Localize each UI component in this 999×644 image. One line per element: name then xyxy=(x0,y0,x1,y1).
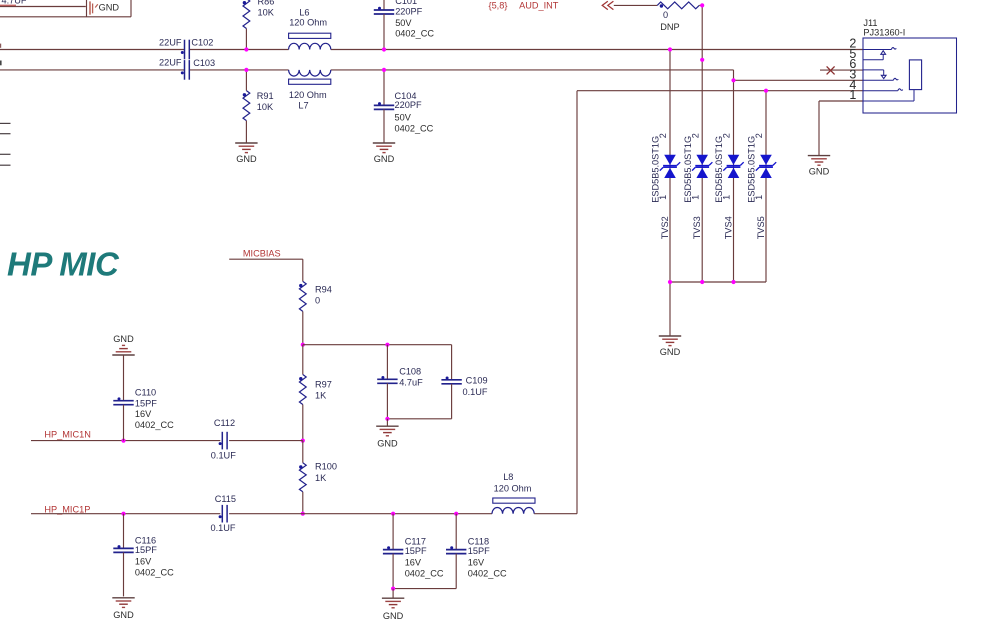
svg-text:1: 1 xyxy=(722,195,732,200)
svg-text:10K: 10K xyxy=(258,8,275,18)
svg-text:R100: R100 xyxy=(315,462,337,472)
svg-text:0402_CC: 0402_CC xyxy=(135,567,174,577)
svg-text:4.7uF: 4.7uF xyxy=(399,377,423,387)
svg-text:2: 2 xyxy=(690,133,700,138)
svg-text:0402_CC: 0402_CC xyxy=(405,568,444,578)
svg-text:C102: C102 xyxy=(191,38,213,48)
svg-text:1: 1 xyxy=(658,195,668,200)
svg-text:4.7UF: 4.7UF xyxy=(2,0,27,5)
svg-text:10K: 10K xyxy=(257,102,274,112)
svg-text:C103: C103 xyxy=(193,58,215,68)
svg-text:ESD5B5.0ST1G: ESD5B5.0ST1G xyxy=(651,136,661,203)
svg-text:1: 1 xyxy=(690,195,700,200)
svg-text:C109: C109 xyxy=(466,375,488,385)
svg-text:HP_MIC1P: HP_MIC1P xyxy=(44,504,90,514)
svg-text:15PF: 15PF xyxy=(405,546,427,556)
svg-text:22UF: 22UF xyxy=(159,38,182,48)
svg-text:GND: GND xyxy=(113,610,134,620)
svg-text:TVS3: TVS3 xyxy=(692,216,702,239)
svg-text:16V: 16V xyxy=(135,409,152,419)
svg-text:ESD5B5.0ST1G: ESD5B5.0ST1G xyxy=(683,136,693,203)
svg-text:2: 2 xyxy=(658,133,668,138)
svg-text:R86: R86 xyxy=(258,0,275,7)
svg-text:0.1UF: 0.1UF xyxy=(463,387,488,397)
svg-text:16V: 16V xyxy=(468,557,485,567)
svg-text:22UF: 22UF xyxy=(159,58,182,68)
svg-text:L6: L6 xyxy=(299,8,309,18)
svg-text:0402_CC: 0402_CC xyxy=(135,420,174,430)
svg-text:1: 1 xyxy=(849,88,856,102)
svg-text:GND: GND xyxy=(374,154,395,164)
svg-text:GND: GND xyxy=(809,167,830,177)
svg-text:0402_CC: 0402_CC xyxy=(395,28,434,38)
svg-text:16V: 16V xyxy=(135,556,152,566)
svg-text:R94: R94 xyxy=(315,285,332,295)
svg-text:0402_CC: 0402_CC xyxy=(468,568,507,578)
svg-text:GND: GND xyxy=(113,334,134,344)
svg-text:0.1UF: 0.1UF xyxy=(210,523,235,533)
svg-text:GND: GND xyxy=(383,611,404,621)
svg-text:120 Ohm: 120 Ohm xyxy=(494,483,532,493)
svg-text:ESD5B5.0ST1G: ESD5B5.0ST1G xyxy=(714,136,724,203)
svg-text:GND: GND xyxy=(99,2,120,12)
svg-text:220PF: 220PF xyxy=(395,100,422,110)
svg-text:R97: R97 xyxy=(315,380,332,390)
svg-text:DNP: DNP xyxy=(660,22,679,32)
svg-text:HP MIC: HP MIC xyxy=(7,246,120,283)
svg-text:C110: C110 xyxy=(135,388,156,398)
svg-text:C117: C117 xyxy=(405,537,426,547)
svg-text:0: 0 xyxy=(315,295,320,305)
svg-text:GND: GND xyxy=(236,154,257,164)
svg-text:ESD5B5.0ST1G: ESD5B5.0ST1G xyxy=(747,136,757,203)
svg-text:50V: 50V xyxy=(395,18,412,28)
svg-text:GND: GND xyxy=(377,439,398,449)
svg-text:C101: C101 xyxy=(395,0,417,6)
svg-text:C118: C118 xyxy=(468,537,489,547)
svg-text:0402_CC: 0402_CC xyxy=(395,124,434,134)
svg-text:1K: 1K xyxy=(315,390,327,400)
svg-text:PJ31360-I: PJ31360-I xyxy=(863,28,905,38)
svg-text:0.1UF: 0.1UF xyxy=(211,451,236,461)
svg-text:GND: GND xyxy=(660,347,681,357)
svg-text:C112: C112 xyxy=(214,418,235,428)
svg-text:1: 1 xyxy=(754,195,764,200)
svg-text:MICBIAS: MICBIAS xyxy=(243,248,281,258)
svg-text:L7: L7 xyxy=(298,100,308,110)
svg-text:0: 0 xyxy=(663,10,668,20)
svg-text:1K: 1K xyxy=(315,473,327,483)
svg-text:TVS4: TVS4 xyxy=(724,216,734,239)
svg-text:L8: L8 xyxy=(503,472,513,482)
svg-text:C115: C115 xyxy=(215,494,236,504)
svg-text:TVS2: TVS2 xyxy=(660,216,670,239)
svg-text:C116: C116 xyxy=(135,536,156,546)
svg-text:120 Ohm: 120 Ohm xyxy=(289,17,327,27)
svg-text:C108: C108 xyxy=(399,366,421,376)
svg-text:{5,8}: {5,8} xyxy=(489,0,508,10)
svg-text:AUD_INT: AUD_INT xyxy=(519,0,559,10)
svg-text:220PF: 220PF xyxy=(395,7,422,17)
svg-text:15PF: 15PF xyxy=(135,398,157,408)
svg-text:16V: 16V xyxy=(405,557,422,567)
svg-text:R91: R91 xyxy=(257,91,274,101)
svg-text:2: 2 xyxy=(754,133,764,138)
svg-text:50V: 50V xyxy=(395,113,412,123)
svg-text:TVS5: TVS5 xyxy=(756,216,766,239)
svg-text:15PF: 15PF xyxy=(468,546,490,556)
svg-text:2: 2 xyxy=(722,133,732,138)
svg-text:15PF: 15PF xyxy=(135,545,157,555)
svg-text:120 Ohm: 120 Ohm xyxy=(289,90,327,100)
svg-text:HP_MIC1N: HP_MIC1N xyxy=(44,430,90,440)
